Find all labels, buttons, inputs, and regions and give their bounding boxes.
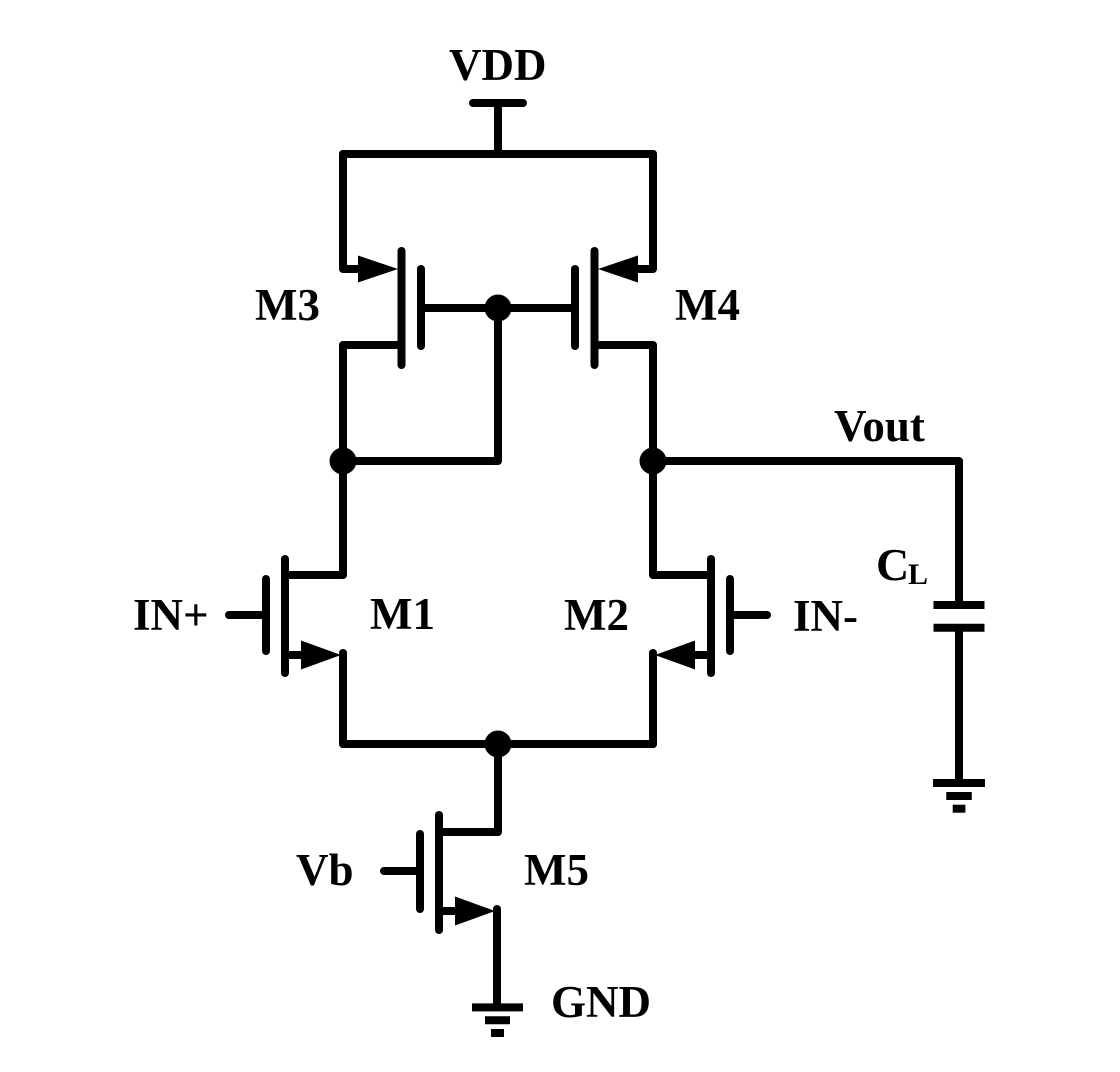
svg-text:Vout: Vout bbox=[834, 401, 925, 451]
svg-text:IN-: IN- bbox=[793, 591, 858, 641]
svg-text:M4: M4 bbox=[675, 280, 740, 330]
svg-text:M1: M1 bbox=[370, 589, 435, 639]
svg-text:M2: M2 bbox=[564, 590, 629, 640]
svg-text:GND: GND bbox=[551, 977, 651, 1027]
svg-text:M3: M3 bbox=[255, 280, 320, 330]
svg-text:M5: M5 bbox=[524, 845, 589, 895]
svg-text:IN+: IN+ bbox=[133, 590, 209, 640]
svg-text:VDD: VDD bbox=[449, 40, 547, 90]
svg-text:L: L bbox=[908, 558, 928, 591]
svg-text:C: C bbox=[876, 539, 909, 590]
svg-text:Vb: Vb bbox=[296, 845, 354, 895]
